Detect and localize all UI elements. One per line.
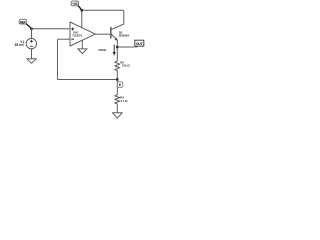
svg-text:I=77mA: I=77mA bbox=[99, 48, 108, 52]
wire bbox=[116, 40, 118, 60]
wire bbox=[81, 40, 83, 49]
resistor R4 bbox=[115, 94, 128, 105]
svg-text:85 mV: 85 mV bbox=[15, 43, 25, 47]
wire bbox=[117, 46, 134, 48]
wire bbox=[58, 38, 71, 40]
junction node B bbox=[81, 9, 83, 11]
junction node A bbox=[30, 28, 32, 30]
wire bbox=[32, 28, 71, 30]
voltage source V1 bbox=[26, 38, 36, 48]
wire bbox=[57, 39, 59, 79]
wire bbox=[58, 79, 118, 81]
wire bbox=[31, 49, 33, 59]
wire bbox=[116, 80, 118, 94]
net label OUT bbox=[135, 40, 144, 47]
wire bbox=[95, 33, 111, 35]
wire bbox=[31, 29, 33, 39]
net label REF bbox=[19, 19, 31, 29]
svg-text:+VS: +VS bbox=[72, 2, 78, 6]
ground bbox=[27, 59, 36, 64]
net label +VS bbox=[71, 1, 82, 10]
svg-text:TLE2071: TLE2071 bbox=[72, 35, 82, 38]
resistor R2 bbox=[115, 60, 131, 72]
transistor Q1 2N3904 bbox=[111, 24, 130, 41]
svg-text:REF: REF bbox=[20, 20, 26, 24]
wire bbox=[82, 10, 124, 24]
current annotation I=77mA bbox=[99, 45, 116, 56]
junction node C bbox=[116, 78, 118, 80]
junction node OUT bbox=[116, 46, 118, 48]
label V1 85 mV bbox=[15, 40, 25, 47]
ground bbox=[113, 113, 123, 118]
probe marker bbox=[117, 82, 122, 88]
svg-text:OUT: OUT bbox=[136, 42, 144, 46]
ground bbox=[78, 49, 87, 54]
op-amp U1 TLE2071 bbox=[70, 22, 95, 46]
svg-text:2N3904: 2N3904 bbox=[119, 34, 130, 38]
wire bbox=[81, 10, 83, 28]
wire bbox=[116, 72, 118, 80]
svg-text:100 Ω: 100 Ω bbox=[122, 63, 131, 67]
wire bbox=[116, 105, 118, 113]
svg-text:4.7 Ω: 4.7 Ω bbox=[120, 99, 128, 103]
